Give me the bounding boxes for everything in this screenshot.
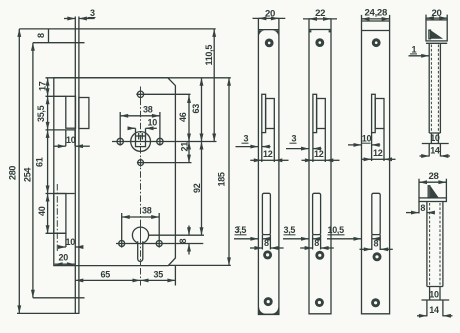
svg-text:14: 14 <box>429 305 439 315</box>
svg-text:14: 14 <box>430 145 440 155</box>
svg-text:22: 22 <box>315 8 325 19</box>
dim 12 extensions A <box>261 133 263 162</box>
dim 38 cyl <box>122 216 160 218</box>
dim 38 top extensions <box>119 112 121 146</box>
case right edge extension <box>174 266 176 286</box>
line y297.8 bottom screw level <box>33 297 85 299</box>
dim 14 E <box>426 300 428 316</box>
faceplate bottom edge <box>17 312 80 314</box>
dim 3.5 arrows B <box>283 238 309 240</box>
svg-text:8: 8 <box>314 238 319 248</box>
plate B mid screw hole <box>315 251 324 260</box>
spindle notch <box>138 133 140 140</box>
dim 8 line C <box>360 248 372 250</box>
dim 92 <box>201 142 203 236</box>
deadbolt bottom extension <box>46 232 66 234</box>
euro cylinder circle <box>132 227 148 243</box>
svg-text:185: 185 <box>216 172 226 186</box>
svg-text:40: 40 <box>37 206 47 216</box>
dim 3.5 arrows A <box>234 238 258 240</box>
latch head <box>79 98 89 129</box>
latch bevel triangle D <box>431 30 444 39</box>
right dim line 110.5 <box>213 29 215 142</box>
svg-text:20: 20 <box>265 8 275 19</box>
svg-text:3: 3 <box>244 134 249 144</box>
plate A latch cutout strip <box>262 94 266 132</box>
latch bevel strip E <box>428 186 430 198</box>
vertical centerline <box>140 87 142 286</box>
svg-text:3,5: 3,5 <box>235 225 247 235</box>
plate B outline <box>309 19 331 314</box>
svg-text:21: 21 <box>180 142 190 152</box>
dim 254 line <box>32 43 34 298</box>
spindle square <box>136 136 146 147</box>
plate A right shoulder <box>272 30 278 36</box>
dim 3 arrows B <box>286 148 309 150</box>
left dim chain 40 <box>47 194 49 234</box>
dim 24,28 line C <box>362 18 390 20</box>
svg-text:10: 10 <box>148 118 158 128</box>
dim 8 E <box>418 202 420 214</box>
cap bar E <box>419 198 446 202</box>
dim 3 arrows A <box>236 146 259 148</box>
dim 8 right segments <box>188 226 190 236</box>
dim 10 latch arrows <box>53 145 65 147</box>
svg-text:35,5: 35,5 <box>36 105 46 122</box>
svg-text:38: 38 <box>143 105 153 115</box>
svg-text:46: 46 <box>178 112 188 122</box>
dim 38 top <box>120 115 160 117</box>
left dim chain 61 <box>47 130 49 194</box>
top hole extension <box>136 93 190 95</box>
svg-text:10,5: 10,5 <box>328 225 345 235</box>
svg-text:3,5: 3,5 <box>284 225 296 235</box>
svg-text:10: 10 <box>66 135 76 145</box>
top hole <box>137 91 143 97</box>
latch bevel strip D <box>429 30 431 39</box>
svg-text:254: 254 <box>22 168 32 182</box>
box 10 D <box>429 132 440 134</box>
body hidden lines E <box>429 203 431 285</box>
dim 12 line C <box>362 158 372 160</box>
plate B latch cutout strip <box>313 94 317 132</box>
plate A left shoulder <box>259 30 265 36</box>
dim 10 square arrows <box>128 127 135 129</box>
svg-text:28: 28 <box>429 171 440 182</box>
dim 8 extensions A <box>261 235 263 250</box>
dim 28 line E <box>419 181 446 183</box>
cylinder right hole <box>156 241 162 247</box>
dim 12 line B <box>302 159 313 161</box>
plate A mid screw hole <box>263 250 272 259</box>
line y42.7 top screw level <box>33 42 85 44</box>
dim 280 line <box>18 29 20 314</box>
plate C outline <box>362 21 390 314</box>
svg-text:8: 8 <box>36 33 46 38</box>
plate C latch cutout strip <box>372 94 376 132</box>
svg-text:1: 1 <box>412 44 417 54</box>
latch bevel triangle E <box>430 186 439 198</box>
box 10 E <box>427 286 443 288</box>
plate A inner rounded end <box>259 308 279 315</box>
body edges D <box>428 43 430 133</box>
plate A latch cutout face <box>266 99 275 129</box>
dim 20 <box>55 263 75 265</box>
latch body <box>66 96 76 128</box>
dim 10 arrows C <box>348 144 362 146</box>
latch top extension <box>46 95 66 97</box>
plate B top edge / dim 22 line <box>303 18 337 20</box>
svg-text:10: 10 <box>362 134 372 144</box>
right dim line 185 <box>228 78 230 266</box>
dim 10.5 arrows C <box>327 238 362 240</box>
dim 8 extensions B <box>312 235 314 250</box>
dim 38 cyl extensions <box>121 213 123 248</box>
svg-text:17: 17 <box>38 81 48 91</box>
svg-text:10: 10 <box>430 133 440 143</box>
svg-text:8: 8 <box>178 239 188 244</box>
plate B bottom screw hole <box>315 298 324 307</box>
dim 12 extensions B <box>312 133 314 162</box>
svg-text:65: 65 <box>101 269 111 279</box>
plate B joint corner nubs <box>309 30 311 32</box>
right dim line 46-21-8 <box>188 95 190 142</box>
svg-text:10: 10 <box>429 289 439 299</box>
svg-text:20: 20 <box>59 253 69 263</box>
svg-text:12: 12 <box>263 149 273 159</box>
spindle circle <box>131 132 151 152</box>
body hidden lines D <box>430 45 432 132</box>
plate C latch cutout face <box>375 99 384 129</box>
deadbolt top extension <box>46 193 75 195</box>
plate A top screw hole <box>265 39 274 48</box>
MAIN VIEW <box>8 8 241 313</box>
svg-text:8: 8 <box>264 238 269 248</box>
cylinder left hole <box>119 241 125 247</box>
svg-text:92: 92 <box>192 183 202 193</box>
svg-text:38: 38 <box>142 206 152 216</box>
cap box D bottom line <box>426 42 447 44</box>
plate A outline <box>258 18 279 314</box>
spindle right hole <box>157 138 163 144</box>
euro cylinder slot <box>138 241 143 261</box>
deadbolt centerline <box>56 184 58 252</box>
stray scan dashes <box>237 227 240 232</box>
plate C deadbolt cutout <box>372 193 380 234</box>
plate A top edge / dim 20 line <box>253 17 286 19</box>
svg-text:8: 8 <box>374 239 379 249</box>
dim 10 latch extensions <box>65 130 67 146</box>
cylinder top circle extension <box>149 234 204 236</box>
cylinder holes line <box>116 243 203 245</box>
plate C mid screw hole <box>373 252 382 261</box>
dim 10 deadbolt <box>65 233 67 247</box>
svg-text:20: 20 <box>432 8 442 19</box>
plate A bottom right corner fill <box>273 309 278 314</box>
dim 8 extensions C <box>371 235 373 250</box>
plate C top screw hole <box>372 38 381 47</box>
plate A cap joint <box>258 29 279 31</box>
latch bottom extension <box>46 129 76 131</box>
plate A bottom screw hole <box>264 297 273 306</box>
svg-text:61: 61 <box>35 157 45 167</box>
spindle horizontal line <box>112 141 217 143</box>
lock case outline <box>54 78 176 266</box>
dim 8 line B <box>300 247 312 249</box>
left dim chain 35.5 <box>47 96 49 130</box>
case bottom extension line <box>168 264 231 266</box>
case top extension line <box>46 77 231 79</box>
left dim chain 17 <box>47 78 49 97</box>
cap box D <box>426 20 447 41</box>
plate B top screw hole <box>315 38 324 47</box>
plate C cap joint <box>362 30 390 32</box>
plate C bottom screw hole <box>371 298 380 307</box>
dim 21 <box>188 142 190 163</box>
cylinder centerline overlay <box>140 226 142 266</box>
SIDE VIEW C <box>327 8 396 314</box>
svg-text:10: 10 <box>66 237 76 247</box>
lower hole <box>138 160 144 166</box>
faceplate edge lines <box>74 17 76 314</box>
svg-text:280: 280 <box>8 166 18 180</box>
SIDE VIEW D <box>409 8 451 157</box>
plate A deadbolt cutout <box>262 193 270 234</box>
svg-text:63: 63 <box>191 104 201 114</box>
svg-text:3: 3 <box>90 8 95 18</box>
spindle left hole <box>117 138 123 144</box>
SIDE VIEW A <box>234 8 289 314</box>
svg-text:24,28: 24,28 <box>365 8 388 19</box>
dim 20 line D <box>426 17 447 19</box>
svg-text:12: 12 <box>373 148 383 158</box>
dim 8 top <box>48 29 50 43</box>
plate B cap joint <box>309 29 331 31</box>
right dim line 63-92 <box>201 78 203 142</box>
dim 14 D <box>428 144 430 157</box>
dim 1 arrow D <box>409 55 430 57</box>
SIDE VIEW B <box>283 8 340 314</box>
plate A bottom left corner fill <box>259 309 264 314</box>
svg-text:12: 12 <box>314 149 324 159</box>
top reference line y29 <box>19 28 215 30</box>
dim 10 square extensions <box>135 128 137 136</box>
dim 12 line A <box>250 159 261 161</box>
dim 12 extensions C <box>371 133 373 161</box>
svg-text:8: 8 <box>420 203 425 213</box>
deadbolt box <box>54 194 66 234</box>
dim 65 35 line <box>75 279 140 281</box>
svg-text:110,5: 110,5 <box>204 45 214 66</box>
lower hole extension <box>137 162 192 164</box>
svg-text:3: 3 <box>292 134 297 144</box>
plate B latch cutout face <box>317 99 326 129</box>
dim 3 faceplate thickness <box>64 18 75 20</box>
SIDE VIEW E <box>406 171 453 316</box>
body edges E <box>426 202 428 287</box>
dim 8 line A <box>250 247 262 249</box>
plate B deadbolt cutout <box>313 193 321 234</box>
svg-text:35: 35 <box>154 269 164 279</box>
